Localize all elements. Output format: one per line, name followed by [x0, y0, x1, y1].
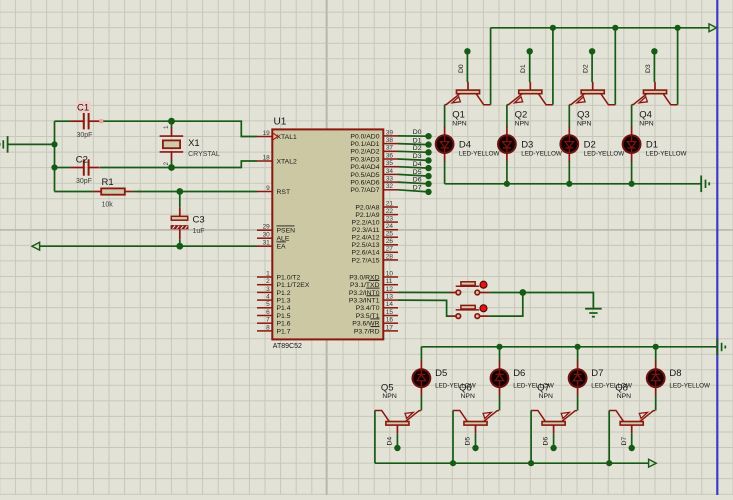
pin 24 P2.3/A11 (right)	[352, 223, 398, 234]
junction left bus / ground	[51, 141, 57, 147]
wire node to C3	[179, 192, 181, 208]
arrow left on EA rail	[32, 242, 40, 250]
svg-text:LED-YELLOW: LED-YELLOW	[459, 151, 500, 158]
svg-text:1uF: 1uF	[193, 228, 205, 235]
wire P0.0 to net D0	[398, 135, 429, 137]
svg-text:NPN: NPN	[382, 393, 396, 400]
svg-text:D5: D5	[435, 368, 447, 379]
svg-text:R1: R1	[102, 177, 114, 188]
capacitor C1	[70, 101, 103, 139]
svg-text:P2.6/A14: P2.6/A14	[352, 250, 380, 257]
svg-text:D3: D3	[413, 153, 422, 160]
pin 35 P0.4/AD4 (right)	[350, 160, 398, 171]
svg-text:27: 27	[386, 246, 394, 253]
svg-text:7: 7	[266, 317, 270, 324]
wire P3.3/INT1 to button 2	[398, 300, 451, 316]
wire emitter Q2 to LED	[506, 105, 508, 128]
svg-text:4: 4	[266, 294, 270, 301]
pin 17 P3.7/RD (right)	[354, 324, 398, 335]
svg-text:Q6: Q6	[459, 382, 472, 393]
svg-text:22: 22	[386, 208, 394, 215]
node net label D2	[413, 145, 432, 155]
pin 19 XTAL1 (left)	[257, 130, 297, 141]
svg-text:NPN: NPN	[639, 121, 653, 128]
svg-text:14: 14	[386, 301, 394, 308]
pin 12 P3.2/INT0 (right)	[349, 286, 398, 297]
wire bottom ground rail	[375, 462, 649, 464]
junction bottom ground rail / Q8	[606, 460, 612, 466]
svg-text:NPN: NPN	[515, 121, 529, 128]
wire emitter Q1 to LED	[444, 105, 446, 128]
ground mid (buttons)	[585, 309, 602, 317]
wire collector Q8 riser	[608, 411, 610, 464]
node base D7 dot	[629, 445, 635, 451]
pin 27 P2.6/A14 (right)	[352, 246, 398, 257]
wire LED D8 to emitter Q8	[655, 396, 657, 411]
svg-text:P2.3/A11: P2.3/A11	[352, 227, 380, 234]
wire crystal bottom	[171, 161, 173, 168]
svg-text:D2: D2	[584, 140, 596, 151]
push button 2	[451, 305, 490, 319]
junction top rail / Q3 collector	[612, 25, 618, 31]
wire base net D3 stub	[653, 54, 655, 83]
pin 14 P3.4/T0 (right)	[356, 301, 398, 312]
wire LED D5 to emitter Q5	[420, 396, 422, 411]
svg-text:15: 15	[386, 309, 394, 316]
junction R1/C3 node	[176, 188, 183, 195]
wire LED D3 to ground rail	[506, 162, 508, 184]
transistor Q3 NPN	[569, 82, 615, 128]
svg-text:P0.5/AD5: P0.5/AD5	[350, 172, 379, 179]
node base D5 dot	[472, 445, 478, 451]
svg-text:23: 23	[386, 216, 394, 223]
svg-text:C1: C1	[77, 103, 89, 114]
wire LED D1 to ground rail	[631, 162, 633, 184]
svg-text:30: 30	[263, 232, 271, 239]
svg-text:NPN: NPN	[617, 393, 631, 400]
svg-text:13: 13	[386, 294, 394, 301]
wire base net D2 stub	[591, 54, 593, 83]
svg-text:EA: EA	[277, 244, 287, 251]
svg-text:36: 36	[386, 152, 394, 159]
transistor Q7 NPN	[531, 382, 577, 433]
wire emitter Q4 to LED	[631, 105, 633, 128]
svg-text:NPN: NPN	[461, 393, 475, 400]
wire base Q8 stub	[631, 433, 633, 446]
pin 18 XTAL2 (left)	[257, 154, 297, 165]
junction top rail / Q4 collector	[675, 25, 681, 31]
svg-text:33: 33	[386, 176, 394, 183]
svg-text:D4: D4	[459, 140, 471, 151]
svg-text:39: 39	[386, 129, 394, 136]
junction bottom ground rail / Q6	[450, 460, 456, 466]
push button 1	[451, 281, 490, 295]
svg-text:D5: D5	[413, 169, 422, 176]
svg-text:P0.7/AD7: P0.7/AD7	[350, 187, 379, 194]
node base D3 dot	[651, 48, 657, 54]
pin 26 P2.5/A13 (right)	[352, 238, 398, 249]
svg-text:XTAL2: XTAL2	[277, 158, 297, 165]
svg-text:Q5: Q5	[381, 382, 394, 393]
wire rail to LED D5	[420, 347, 422, 361]
svg-text:NPN: NPN	[452, 121, 466, 128]
wire LED D6 to emitter Q6	[499, 396, 501, 411]
svg-text:AT89C52: AT89C52	[273, 343, 302, 350]
pin 2 P1.1/T2EX (left)	[257, 278, 310, 289]
node base D6 dot	[550, 445, 556, 451]
wire P0.4 to net D4	[398, 167, 429, 168]
pin 23 P2.2/A10 (right)	[352, 216, 398, 227]
pin 8 P1.7 (left)	[257, 324, 291, 335]
node base D1 dot	[527, 48, 533, 54]
wire collector Q1 riser	[490, 28, 492, 105]
pin 22 P2.1/A9 (right)	[355, 208, 398, 219]
pin 16 P3.6/WR (right)	[352, 317, 398, 328]
svg-text:D1: D1	[646, 140, 658, 151]
wire collector Q3 riser	[614, 28, 616, 105]
wire collector Q4 riser	[677, 28, 679, 105]
svg-text:10k: 10k	[102, 201, 114, 208]
junction crystal top / C1 wire	[168, 118, 175, 125]
svg-text:P1.5: P1.5	[277, 313, 291, 320]
pin 13 P3.3/INT1 (right)	[349, 294, 398, 305]
sheet border (right edge)	[716, 0, 718, 495]
svg-text:12: 12	[386, 286, 394, 293]
junction bottom power rail / LED D7	[575, 344, 581, 350]
svg-text:P3.3/INT1: P3.3/INT1	[349, 298, 380, 305]
junction left bus / C2	[51, 164, 57, 170]
svg-text:25: 25	[386, 231, 394, 238]
resistor R1 10k	[93, 177, 141, 209]
capacitor C3 1uF (polarized)	[171, 207, 205, 239]
svg-text:P3.7/RD: P3.7/RD	[354, 328, 380, 335]
wire R1 to RST	[133, 191, 257, 193]
wire P0.3 to net D3	[398, 159, 429, 160]
svg-text:28: 28	[386, 253, 394, 260]
svg-text:D5: D5	[465, 437, 472, 446]
transistor Q1 NPN	[445, 82, 491, 128]
svg-text:2: 2	[266, 278, 270, 285]
wire collector Q6 riser	[452, 411, 454, 464]
pin 30 ALE (left)	[257, 232, 290, 243]
svg-text:8: 8	[266, 324, 270, 331]
pin 9 RST (left)	[257, 185, 290, 196]
svg-text:XTAL1: XTAL1	[277, 134, 297, 141]
svg-text:D4: D4	[387, 437, 394, 446]
wire C1 left	[55, 120, 71, 122]
svg-text:C3: C3	[193, 215, 205, 226]
svg-text:P3.4/T0: P3.4/T0	[356, 305, 380, 312]
svg-text:LED-YELLOW: LED-YELLOW	[646, 151, 687, 158]
crystal X1	[160, 125, 220, 166]
wire LED D2 to ground rail	[568, 162, 570, 184]
pin 34 P0.5/AD5 (right)	[350, 168, 398, 179]
pin 4 P1.3 (left)	[257, 294, 291, 305]
svg-text:5: 5	[266, 301, 270, 308]
svg-text:P1.2: P1.2	[277, 290, 291, 297]
svg-text:PSEN: PSEN	[277, 228, 296, 235]
svg-text:1: 1	[266, 270, 270, 277]
node net label D4	[413, 161, 432, 171]
wire P0.1 to net D1	[398, 144, 429, 145]
wire base net D1 stub	[529, 54, 531, 83]
svg-text:D7: D7	[591, 368, 603, 379]
svg-text:P1.3: P1.3	[277, 298, 291, 305]
svg-text:35: 35	[386, 160, 394, 167]
svg-text:P1.4: P1.4	[277, 305, 291, 312]
svg-text:P0.1/AD1: P0.1/AD1	[350, 141, 379, 148]
wire base Q5 stub	[396, 433, 398, 446]
pin 33 P0.6/AD6 (right)	[350, 176, 398, 187]
svg-text:P1.6: P1.6	[277, 321, 291, 328]
ground top right	[701, 176, 709, 193]
transistor Q5 NPN	[375, 382, 421, 433]
junction crystal bottom / C2 wire	[168, 164, 175, 171]
svg-text:P1.1/T2EX: P1.1/T2EX	[277, 282, 310, 289]
svg-text:32: 32	[386, 183, 394, 190]
svg-text:9: 9	[266, 185, 270, 192]
wire P0.6 to net D6	[398, 182, 429, 184]
svg-text:U1: U1	[274, 116, 287, 127]
svg-text:19: 19	[263, 130, 271, 137]
svg-text:11: 11	[386, 278, 393, 285]
transistor Q6 NPN	[453, 382, 499, 433]
svg-text:3: 3	[266, 286, 270, 293]
clock chevron on XTAL1 pin	[273, 133, 278, 139]
svg-text:D6: D6	[543, 437, 550, 446]
net label D3 (rotated)	[645, 64, 652, 73]
LED D2 LED-YELLOW	[560, 126, 624, 161]
svg-text:NPN: NPN	[577, 121, 591, 128]
wire top ground rail	[445, 183, 702, 185]
wire LED D4 to ground rail	[444, 162, 446, 184]
svg-text:P1.0/T2: P1.0/T2	[277, 274, 301, 281]
svg-text:30pF: 30pF	[76, 178, 92, 185]
pin 5 P1.4 (left)	[257, 301, 291, 312]
node net label D1	[413, 137, 432, 147]
LED D8 LED-YELLOW	[647, 361, 710, 396]
svg-text:1: 1	[163, 125, 170, 129]
wire collector Q5 riser	[374, 411, 376, 464]
wire button 1 to ground	[489, 293, 593, 309]
wire C3 to ground rail	[179, 239, 181, 246]
pin 36 P0.3/AD3 (right)	[350, 152, 398, 163]
pin 15 P3.5/T1 (right)	[356, 309, 398, 320]
node net label D5	[413, 169, 432, 179]
arrow bottom rail right	[649, 459, 657, 467]
svg-text:D1: D1	[520, 64, 527, 73]
svg-text:D7: D7	[621, 437, 628, 446]
wire emitter Q3 to LED	[568, 105, 570, 128]
svg-text:D3: D3	[645, 64, 652, 73]
junction ground rail / LED D2	[566, 181, 572, 187]
svg-text:D6: D6	[413, 177, 422, 184]
net label D6 (rotated)	[543, 437, 550, 446]
svg-text:P2.1/A9: P2.1/A9	[355, 212, 379, 219]
net label D4 (rotated)	[387, 437, 394, 446]
svg-text:LED-YELLOW: LED-YELLOW	[521, 151, 562, 158]
pin 21 P2.0/A8 (right)	[355, 200, 398, 211]
svg-text:Q2: Q2	[515, 109, 528, 120]
junction bottom power rail / LED D6	[496, 344, 502, 350]
wire rail to LED D8	[655, 347, 657, 361]
svg-text:16: 16	[386, 317, 394, 324]
wire C1 to XTAL1	[103, 121, 257, 136]
svg-text:P2.0/A8: P2.0/A8	[355, 204, 379, 211]
svg-text:X1: X1	[188, 138, 200, 149]
wire P3.2/INT0 to button 1	[398, 291, 451, 293]
transistor Q2 NPN	[507, 82, 553, 128]
wire C2 left	[55, 167, 71, 169]
svg-text:P2.4/A12: P2.4/A12	[352, 235, 380, 242]
node net label D7	[413, 185, 432, 195]
wire base net D0 stub	[466, 54, 468, 83]
wire left vertical bus	[54, 121, 56, 191]
wire base Q6 stub	[475, 433, 477, 446]
svg-text:34: 34	[386, 168, 394, 175]
svg-text:P0.6/AD6: P0.6/AD6	[350, 180, 379, 187]
svg-text:31: 31	[263, 240, 271, 247]
pin 7 P1.6 (left)	[257, 317, 291, 328]
arrow top rail right	[709, 24, 717, 32]
net label D7 (rotated)	[621, 437, 628, 446]
LED D5 LED-YELLOW	[413, 361, 476, 396]
wire ground to left bus	[8, 143, 55, 145]
node net label D6	[413, 177, 432, 187]
svg-text:P0.2/AD2: P0.2/AD2	[350, 149, 379, 156]
svg-text:D7: D7	[413, 185, 422, 192]
pin 31 EA (left)	[257, 240, 286, 251]
svg-text:D0: D0	[458, 64, 465, 73]
junction top rail / Q2 collector	[550, 25, 556, 31]
svg-text:RST: RST	[277, 189, 291, 196]
junction C3 / EA rail	[176, 243, 183, 250]
svg-text:D1: D1	[413, 137, 422, 144]
LED D3 LED-YELLOW	[498, 126, 562, 161]
pin 39 P0.0/AD0 (right)	[350, 129, 398, 140]
junction ground rail / LED D1	[629, 181, 635, 187]
node base D0 dot	[464, 48, 470, 54]
node net label D0	[413, 129, 432, 139]
svg-text:10: 10	[386, 270, 394, 277]
svg-text:29: 29	[263, 224, 271, 231]
junction buttons node	[519, 289, 526, 296]
svg-text:37: 37	[386, 145, 394, 152]
wire top power rail	[491, 27, 710, 29]
LED D7 LED-YELLOW	[569, 361, 632, 396]
svg-text:P2.7/A15: P2.7/A15	[352, 257, 380, 264]
wire LED D7 to emitter Q7	[577, 396, 579, 411]
IC U1 AT89C52 body	[272, 116, 383, 349]
svg-text:Q3: Q3	[577, 109, 590, 120]
wire P0.2 to net D2	[398, 151, 429, 152]
svg-text:2: 2	[163, 162, 170, 166]
svg-text:26: 26	[386, 238, 394, 245]
svg-text:21: 21	[386, 200, 394, 207]
svg-text:17: 17	[386, 324, 394, 331]
wire button 2 up to node	[489, 293, 523, 317]
pin 3 P1.2 (left)	[257, 286, 291, 297]
svg-text:D3: D3	[521, 140, 533, 151]
transistor Q8 NPN	[609, 382, 655, 433]
pin 11 P3.1/TXD (right)	[350, 278, 398, 289]
svg-text:Q7: Q7	[537, 382, 550, 393]
power/ground terminal left	[0, 136, 8, 153]
wire crystal top	[171, 121, 173, 128]
wire P0.5 to net D5	[398, 174, 429, 176]
svg-text:D6: D6	[513, 368, 525, 379]
wire C2 to XTAL2	[100, 161, 257, 168]
LED D6 LED-YELLOW	[491, 361, 554, 396]
svg-text:18: 18	[263, 154, 271, 161]
svg-text:P0.3/AD3: P0.3/AD3	[350, 156, 379, 163]
net label D1 (rotated)	[520, 64, 527, 73]
pin 10 P3.0/RXD (right)	[349, 270, 398, 281]
net label D2 (rotated)	[583, 64, 590, 73]
svg-text:D4: D4	[413, 161, 422, 168]
svg-text:D2: D2	[413, 145, 422, 152]
svg-text:24: 24	[386, 223, 394, 230]
wire base Q7 stub	[553, 433, 555, 446]
wire EA/ground rail	[39, 245, 257, 247]
net label D5 (rotated)	[465, 437, 472, 446]
svg-text:P1.7: P1.7	[277, 328, 291, 335]
wire rail to LED D6	[499, 347, 501, 361]
pin 6 P1.5 (left)	[257, 309, 291, 320]
junction ground rail / LED D3	[504, 181, 510, 187]
node base D2 dot	[589, 48, 595, 54]
junction bottom power rail / LED D8	[653, 344, 659, 350]
svg-text:Q8: Q8	[615, 382, 628, 393]
svg-text:Q1: Q1	[452, 109, 465, 120]
wire rail to LED D7	[577, 347, 579, 361]
svg-text:D2: D2	[583, 64, 590, 73]
wire P0.7 to net D7	[398, 190, 429, 192]
net label D0 (rotated)	[458, 64, 465, 73]
wire R1 left	[55, 191, 94, 193]
svg-text:LED-YELLOW: LED-YELLOW	[584, 151, 625, 158]
wire collector Q7 riser	[530, 411, 532, 464]
svg-text:38: 38	[386, 137, 394, 144]
svg-text:C2: C2	[76, 154, 88, 165]
wire bottom power rail	[421, 346, 717, 348]
capacitor C2	[70, 154, 99, 185]
svg-text:Q4: Q4	[639, 109, 652, 120]
svg-text:P2.2/A10: P2.2/A10	[352, 220, 380, 227]
svg-text:NPN: NPN	[539, 393, 553, 400]
svg-text:P0.4/AD4: P0.4/AD4	[350, 164, 379, 171]
pin 32 P0.7/AD7 (right)	[350, 183, 398, 194]
svg-text:D0: D0	[413, 129, 422, 136]
svg-text:P2.5/A13: P2.5/A13	[352, 242, 380, 249]
LED D1 LED-YELLOW	[623, 126, 687, 161]
pin 29 PSEN (left)	[257, 224, 295, 235]
wire collector Q2 riser	[552, 28, 554, 105]
node net label D3	[413, 153, 432, 163]
junction bottom ground rail / Q7	[528, 460, 534, 466]
pin 28 P2.7/A15 (right)	[352, 253, 398, 264]
svg-text:30pF: 30pF	[77, 132, 93, 139]
svg-text:LED-YELLOW: LED-YELLOW	[669, 383, 710, 390]
svg-text:P0.0/AD0: P0.0/AD0	[350, 133, 379, 140]
node base D4 dot	[394, 445, 400, 451]
svg-text:D8: D8	[669, 368, 681, 379]
ground bottom right	[717, 339, 725, 356]
svg-text:6: 6	[266, 309, 270, 316]
LED D4 LED-YELLOW	[436, 126, 500, 161]
pin 1 P1.0/T2 (left)	[257, 270, 301, 281]
svg-text:CRYSTAL: CRYSTAL	[188, 151, 220, 158]
